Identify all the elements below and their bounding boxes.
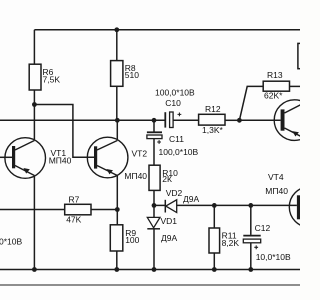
svg-text:7,5K: 7,5K: [43, 75, 61, 85]
resistor R9: [110, 225, 123, 251]
resistor R12: [199, 114, 225, 125]
node R11 top junction: [212, 203, 217, 208]
resistor R8: [111, 61, 123, 87]
resistor R13: [263, 81, 289, 91]
svg-text:C10: C10: [165, 98, 181, 108]
wire VT1 base from left edge: [0, 156, 12, 158]
svg-text:100,0*10В: 100,0*10В: [159, 147, 199, 157]
wire diagonal node up to R13: [239, 86, 263, 120]
wire VT2 emitter down to R9: [116, 176, 118, 225]
node VT1 emitter bus junction: [32, 267, 37, 272]
node VT2 collector junction: [115, 118, 120, 123]
node VT1 collector / R6 junction: [32, 102, 37, 107]
node R11 bus junction: [212, 267, 217, 272]
svg-text:C11: C11: [169, 134, 184, 144]
wire R8 top: [116, 30, 118, 61]
svg-text:VD1: VD1: [161, 216, 178, 226]
gray separator line: [0, 284, 300, 286]
svg-text:1,3K*: 1,3K*: [202, 125, 223, 135]
wire node to VT2 base (right, down, right): [34, 105, 94, 158]
wire node to VT3 base: [239, 119, 280, 121]
diode VD1: [147, 205, 160, 269]
wire VT2 collector up to node: [116, 120, 118, 140]
svg-text:10,0*10В: 10,0*10В: [256, 252, 291, 262]
resistor R7: [65, 204, 91, 215]
node R12 right junction: [237, 118, 242, 123]
svg-text:62K*: 62K*: [264, 91, 283, 101]
node R9 bus junction: [114, 267, 119, 272]
svg-text:C12: C12: [255, 223, 271, 233]
node R7/VT2 emitter junction: [115, 207, 120, 212]
svg-text:100: 100: [125, 235, 139, 245]
wire R9 bottom to bus: [116, 251, 118, 270]
transistor VT1: [5, 138, 46, 179]
svg-text:МП40: МП40: [49, 155, 72, 165]
wire R10 bottom to diode node: [153, 190, 155, 205]
wire R11 top: [213, 205, 215, 228]
svg-text:Д9А: Д9А: [183, 194, 199, 204]
node C12 bus junction: [248, 267, 253, 272]
svg-text:МП40: МП40: [265, 186, 288, 196]
wire C10 right to R12: [173, 119, 199, 121]
svg-text:МП40: МП40: [124, 171, 147, 181]
wire R7 right to VT2 emitter: [91, 209, 117, 211]
svg-text:2К: 2К: [162, 174, 172, 184]
svg-text:0*10В: 0*10В: [0, 237, 22, 247]
wire VT1 emitter down to bottom bus: [33, 176, 35, 270]
svg-text:Д9А: Д9А: [161, 233, 177, 243]
node R10/VD1/VD2 junction: [152, 203, 157, 208]
svg-text:VT2: VT2: [132, 148, 148, 158]
resistor R6: [29, 64, 41, 90]
svg-text:8,2K: 8,2K: [222, 238, 240, 248]
svg-text:510: 510: [125, 70, 139, 80]
wire C11 bottom to R10: [153, 139, 155, 166]
svg-text:R13: R13: [267, 70, 283, 80]
transistor VT4 (cut off at right edge): [289, 187, 320, 228]
resistor at right edge (cut off): [298, 43, 310, 68]
node VD1 bus junction: [152, 267, 157, 272]
wire R11 bottom to bus: [213, 253, 215, 270]
node R8 top junction: [114, 27, 119, 32]
wire top supply bus: [34, 29, 300, 31]
svg-text:VD2: VD2: [166, 188, 183, 198]
svg-text:R12: R12: [205, 104, 221, 114]
svg-text:VT4: VT4: [268, 172, 284, 182]
wire VT1 collector up to node: [33, 105, 35, 141]
node C12 top junction: [248, 203, 253, 208]
capacitor C10: [165, 112, 181, 128]
wire bottom bus: [0, 269, 300, 271]
resistor R11: [209, 228, 220, 253]
wire R6 bottom to node: [33, 90, 35, 105]
transistor VT2: [87, 137, 128, 178]
wire VD2 right along to VT4 base: [214, 204, 297, 206]
wire top-left corner down to R6: [33, 30, 35, 64]
svg-text:100,0*10В: 100,0*10В: [155, 87, 195, 97]
wire R7 left from image edge: [0, 209, 65, 211]
wire R8 bottom to VT2 collector node: [116, 86, 118, 120]
svg-text:R7: R7: [69, 194, 80, 204]
capacitor C12: [243, 205, 260, 269]
wire R12 right to node: [225, 119, 239, 121]
svg-text:47K: 47K: [66, 214, 81, 224]
node C11 junction: [152, 118, 157, 123]
wire signal line y=120 from left edge to C10: [0, 119, 165, 121]
diode VD2: [154, 200, 214, 213]
wire R13 right to image edge: [290, 85, 301, 87]
transistor VT3: [274, 100, 315, 141]
capacitor C11: [147, 120, 162, 144]
resistor R10: [149, 165, 160, 190]
